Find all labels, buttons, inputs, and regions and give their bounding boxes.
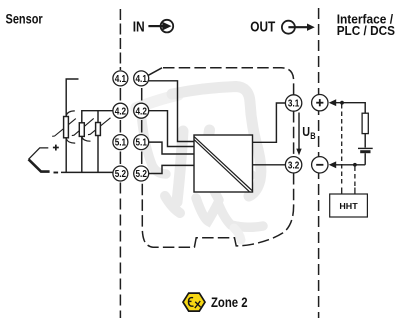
svg-text:Zone 2: Zone 2 <box>211 295 248 310</box>
svg-text:5.1: 5.1 <box>115 138 127 149</box>
svg-text:3.1: 3.1 <box>288 99 300 110</box>
svg-text:HHT: HHT <box>339 201 358 211</box>
svg-text:U: U <box>302 125 310 139</box>
svg-text:5.2: 5.2 <box>136 169 148 180</box>
svg-text:PLC / DCS: PLC / DCS <box>337 23 396 38</box>
svg-text:5.1: 5.1 <box>136 138 148 149</box>
svg-text:4.1: 4.1 <box>136 74 148 85</box>
svg-text:3.2: 3.2 <box>288 160 300 171</box>
svg-text:OUT: OUT <box>250 20 275 36</box>
svg-text:IN: IN <box>133 19 145 35</box>
svg-text:4.2: 4.2 <box>136 106 148 117</box>
svg-text:5.2: 5.2 <box>115 169 127 180</box>
svg-text:Sensor: Sensor <box>6 12 44 27</box>
svg-text:B: B <box>310 131 315 142</box>
svg-text:4.2: 4.2 <box>115 106 127 117</box>
svg-text:4.1: 4.1 <box>115 74 127 85</box>
